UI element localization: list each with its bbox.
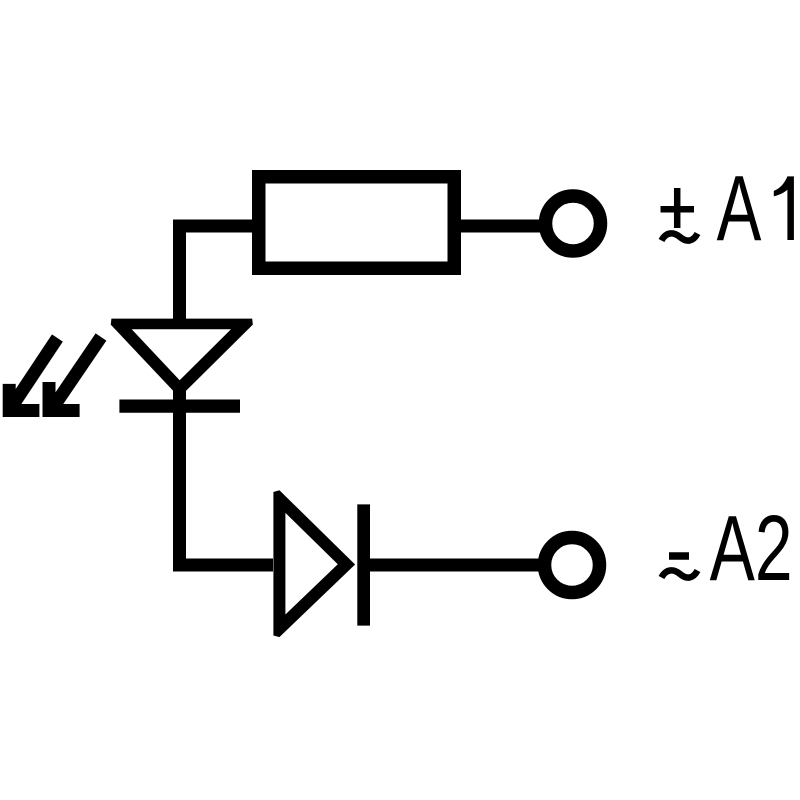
resistor R1 — [259, 177, 455, 269]
terminal A2 — [545, 538, 600, 593]
LED D1 triangle — [111, 319, 253, 398]
polarity symbol plus/tilde at A1 — [661, 188, 698, 241]
wire resistor to terminal A1 — [459, 220, 546, 233]
wire diode to terminal A2 — [363, 559, 546, 572]
svg-text:A2: A2 — [710, 498, 793, 601]
LED light-emission arrow 1 (left) — [9, 338, 57, 411]
LED light-emission arrow 2 (right) — [49, 337, 101, 411]
svg-text:A: A — [717, 158, 762, 261]
LED D1 cathode bar — [119, 400, 240, 413]
polarity symbol minus/tilde at A2 — [662, 556, 698, 578]
terminal A1 — [546, 196, 601, 251]
wire main bus (top horizontal, left vertical, bottom horizontal) — [180, 226, 274, 565]
diode V1 cathode bar — [357, 504, 370, 625]
diode V1 triangle — [273, 490, 355, 637]
